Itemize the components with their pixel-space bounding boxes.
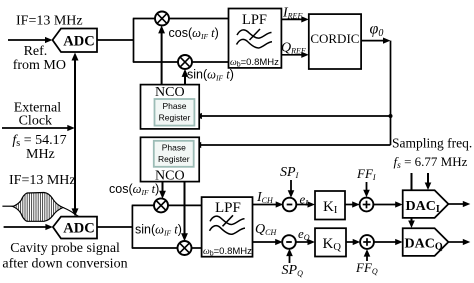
svg-text:Sampling freq.: Sampling freq.: [392, 136, 472, 151]
svg-text:NCO: NCO: [155, 85, 185, 100]
wire ICH to subtractor with arrowhead: [253, 201, 284, 207]
label Ref. from MO: [13, 44, 66, 73]
svg-text:sin(ωIF t): sin(ωIF t): [135, 223, 182, 238]
wire cavity signal input into ADC2 with arrowhead: [4, 224, 53, 230]
multiplier X4 (cavity sin mixer): [178, 241, 192, 255]
label fs = 54.17 MHz: [12, 133, 66, 162]
multiplier X2 (reference sin mixer): [178, 55, 192, 69]
wire FFI down into adder A1 with arrowhead: [363, 182, 370, 197]
wire ADC1 output to I/Q split: [97, 39, 134, 41]
svg-text:MHz: MHz: [26, 147, 55, 162]
block Phase Register 2: [154, 141, 194, 167]
svg-text:from MO: from MO: [13, 58, 66, 73]
RF burst symbol (cavity probe signal envelope): [2, 191, 82, 223]
wire to multiplier X2: [133, 61, 179, 63]
wire NCO2 cos output down to X3 with arrowhead: [159, 182, 166, 199]
wire NCO1 sin output up to X2 with arrowhead: [182, 69, 189, 85]
svg-text:after down conversion: after down conversion: [2, 257, 127, 272]
svg-text:NCO: NCO: [155, 169, 185, 184]
label Cavity probe signal after down conversion: [2, 241, 127, 272]
svg-text:IF=13 MHz: IF=13 MHz: [16, 14, 83, 29]
block CORDIC: [309, 14, 361, 69]
svg-text:cos(ωIF t): cos(ωIF t): [109, 182, 159, 197]
block LPF1 (reference low-pass filter): [229, 9, 282, 69]
block NCO2: [141, 137, 200, 183]
ADC U2 (cavity ADC): [53, 217, 97, 239]
multiplier X1 (reference cos mixer): [155, 12, 169, 26]
svg-text:LPF: LPF: [242, 12, 267, 28]
wire DAC_Q output arrow: [448, 239, 470, 245]
wire adder A1 to DAC_I with arrowhead: [373, 201, 402, 207]
wire feedback to Phase Register 2 with arrowhead: [194, 142, 391, 148]
wire IREF to CORDIC with arrowhead: [281, 16, 308, 22]
block K_I (proportional gain I): [315, 191, 345, 220]
DAC U3 (I channel DAC): [403, 190, 449, 218]
wire to multiplier X4: [132, 247, 178, 249]
wire FFQ up into adder A2 with arrowhead: [364, 249, 371, 261]
svg-text:ADC: ADC: [63, 34, 94, 50]
wire sampling clock vertical (fs=54.17 MHz) with arrowheads into both ADCs: [72, 53, 79, 217]
svg-text:DACI: DACI: [406, 199, 440, 215]
svg-text:Cavity probe signal: Cavity probe signal: [10, 241, 120, 256]
wire NCO1 cos output up to X1 with arrowhead: [158, 25, 165, 84]
wire X4 to LPF2: [191, 247, 201, 249]
subtractor S2 (Q channel): [282, 235, 296, 249]
multiplier X3 (cavity cos mixer): [154, 198, 168, 212]
svg-text:LPF: LPF: [215, 200, 241, 216]
svg-text:ADC: ADC: [63, 221, 94, 237]
wire to multiplier X1: [133, 18, 156, 20]
svg-text:Clock: Clock: [19, 114, 52, 129]
block NCO1: [141, 85, 200, 129]
wire I/Q split vertical (upper): [133, 19, 135, 63]
junction feedback node: [389, 114, 393, 118]
label External Clock: [14, 101, 62, 129]
wire QREF to CORDIC with arrowhead: [281, 52, 308, 58]
svg-text:Phase: Phase: [162, 101, 186, 111]
wire phase feedback vertical: [390, 41, 392, 145]
svg-text:Register: Register: [159, 113, 191, 123]
DAC U4 (Q channel DAC): [403, 228, 449, 256]
wire ADC2 output to I/Q split: [97, 226, 132, 228]
block K_Q (proportional gain Q): [315, 228, 346, 256]
svg-text:Register: Register: [158, 154, 190, 164]
adder A2 (Q channel): [360, 235, 374, 249]
ADC U1 (reference ADC): [53, 29, 98, 53]
wire SPQ up into subtractor S2 with arrowhead: [286, 249, 293, 263]
svg-text:cos(ωIF t): cos(ωIF t): [169, 26, 219, 41]
wire DAC clock B into DAC_I with arrowhead: [425, 173, 432, 190]
wire phi0 output with arrowhead: [361, 38, 391, 44]
wire reference input into ADC1 with arrowhead: [8, 37, 53, 43]
wire I/Q split vertical (lower): [131, 205, 133, 248]
wire adder A2 to DAC_Q with arrowhead: [374, 239, 403, 245]
wire QCH to subtractor with arrowhead: [253, 239, 283, 245]
svg-text:Phase: Phase: [162, 143, 186, 153]
wire X3 to LPF2: [168, 204, 202, 206]
block LPF2 (cavity low-pass filter): [202, 197, 253, 257]
svg-text:fs = 6.77 MHz: fs = 6.77 MHz: [394, 154, 468, 171]
wire X2 to LPF1: [192, 61, 229, 63]
svg-text:Ref.: Ref.: [24, 44, 48, 59]
wire SPI down into subtractor S1 with arrowhead: [288, 180, 295, 198]
wire NCO2 sin output down to X4 with arrowhead: [181, 182, 188, 242]
svg-text:IF=13 MHz: IF=13 MHz: [9, 173, 76, 188]
wire eI to K_I with arrowhead: [296, 201, 315, 207]
wire DAC_I output arrow: [448, 201, 470, 207]
wire DAC clock A (through DAC_I to DAC_Q): [408, 173, 415, 228]
block Phase Register 1: [155, 99, 195, 126]
svg-text:sin(ωIF t): sin(ωIF t): [187, 68, 234, 83]
wire K_I to adder A1 with arrowhead: [345, 201, 360, 207]
svg-text:CORDIC: CORDIC: [310, 31, 359, 46]
wire eQ to K_Q with arrowhead: [295, 239, 315, 245]
wire external clock input with arrowhead: [2, 125, 75, 131]
wire feedback to Phase Register 1 with arrowhead: [194, 113, 390, 119]
adder A1 (I channel): [360, 198, 374, 212]
wire X1 to LPF1: [169, 18, 229, 20]
subtractor S1 (I channel): [283, 198, 297, 212]
wire to multiplier X3: [132, 204, 155, 206]
wire K_Q to adder A2 with arrowhead: [346, 239, 360, 245]
